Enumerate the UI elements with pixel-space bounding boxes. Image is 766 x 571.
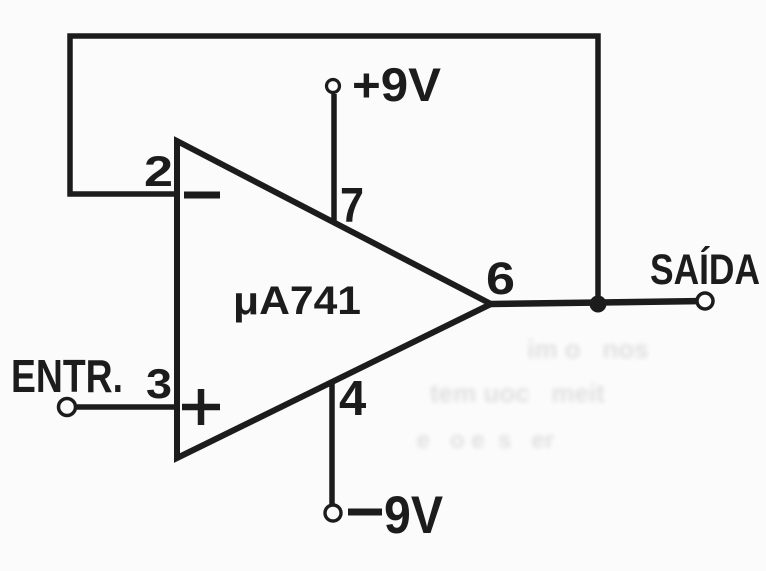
svg-text:tem uoc meit: tem uoc meit (430, 378, 605, 408)
svg-text:2: 2 (144, 148, 173, 196)
svg-text:3: 3 (146, 360, 172, 407)
svg-text:4: 4 (339, 372, 366, 426)
svg-text:7: 7 (340, 179, 364, 233)
svg-text:ENTR.: ENTR. (11, 350, 123, 402)
svg-text:im o nos: im o nos (520, 334, 649, 364)
svg-text:9V: 9V (384, 486, 443, 545)
svg-text:e o e s er: e o e s er (410, 427, 554, 454)
svg-text:6: 6 (486, 253, 515, 304)
svg-text:SAÍDA: SAÍDA (650, 246, 760, 294)
svg-text:+9V: +9V (352, 58, 442, 111)
svg-text:μA741: μA741 (233, 279, 361, 323)
